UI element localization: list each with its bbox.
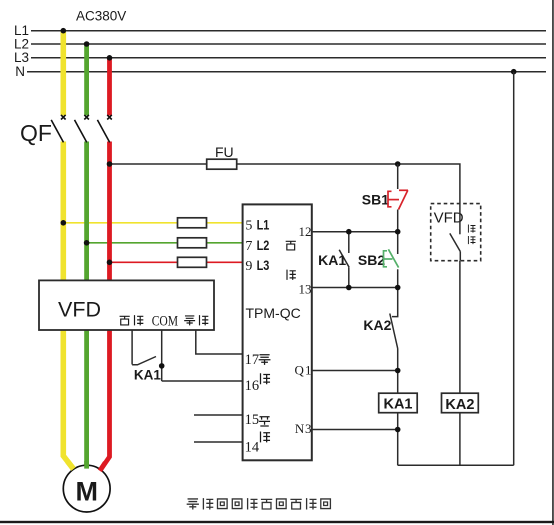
svg-text:KA2: KA2 <box>363 317 391 333</box>
svg-text:N: N <box>15 64 25 79</box>
svg-text:3: 3 <box>305 421 312 436</box>
svg-text:1: 1 <box>305 363 312 378</box>
svg-text:KA1: KA1 <box>383 397 412 413</box>
svg-text:QF: QF <box>20 120 52 146</box>
svg-text:16: 16 <box>245 378 260 394</box>
svg-text:N: N <box>295 421 305 436</box>
svg-text:AC380V: AC380V <box>76 9 126 24</box>
svg-text:TPM-QC: TPM-QC <box>246 305 301 321</box>
svg-text:SB1: SB1 <box>362 191 389 207</box>
svg-text:L2: L2 <box>14 36 29 51</box>
svg-text:5: 5 <box>245 219 252 234</box>
svg-text:COM: COM <box>152 312 179 329</box>
svg-text:13: 13 <box>299 281 312 296</box>
svg-text:9: 9 <box>245 259 252 274</box>
svg-text:Q: Q <box>295 363 305 378</box>
svg-text:KA2: KA2 <box>445 397 474 413</box>
svg-text:L1: L1 <box>257 217 270 233</box>
svg-text:15: 15 <box>245 412 260 428</box>
svg-text:M: M <box>75 477 98 507</box>
svg-text:12: 12 <box>299 224 312 239</box>
svg-text:17: 17 <box>245 352 260 368</box>
svg-text:L3: L3 <box>14 50 29 65</box>
svg-text:7: 7 <box>245 239 252 254</box>
svg-text:L3: L3 <box>257 258 270 274</box>
svg-text:FU: FU <box>215 144 234 160</box>
svg-text:14: 14 <box>245 440 260 456</box>
svg-text:L2: L2 <box>257 238 270 254</box>
svg-text:VFD: VFD <box>58 297 101 321</box>
svg-text:KA1: KA1 <box>318 252 346 268</box>
svg-text:KA1: KA1 <box>134 368 161 383</box>
svg-text:SB2: SB2 <box>358 252 385 268</box>
